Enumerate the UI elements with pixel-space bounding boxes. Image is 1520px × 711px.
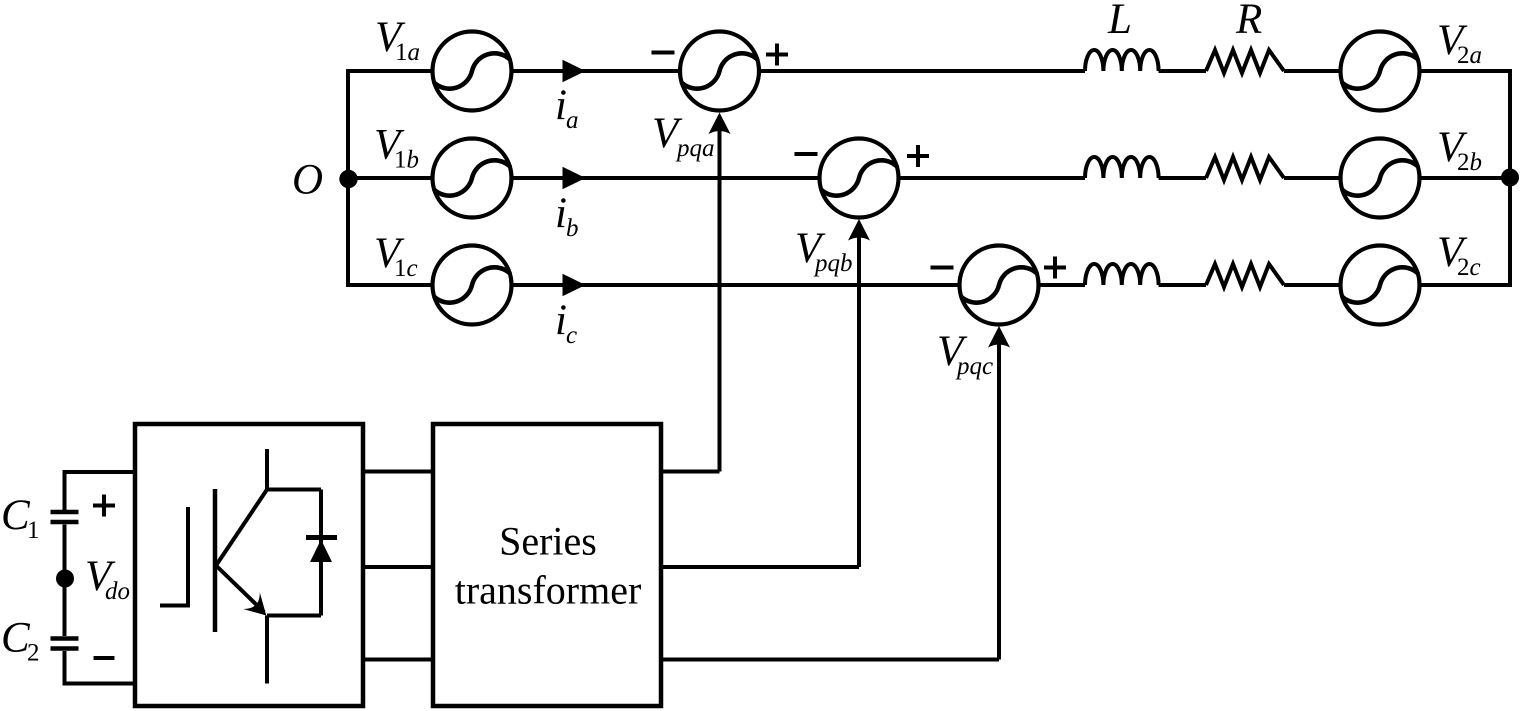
svg-text:1: 1	[27, 517, 40, 544]
svg-text:L: L	[1107, 0, 1132, 43]
wire row b: V1b to Vpqb	[512, 176, 820, 180]
diode D1 cathode bar	[306, 535, 337, 540]
wire row c: L to R	[1159, 283, 1207, 287]
inductor L row c	[1085, 264, 1159, 285]
diode D1 triangle	[310, 540, 332, 563]
wire riser to Vpqb	[857, 231, 861, 567]
svg-text:2: 2	[27, 640, 40, 667]
resistor R row a	[1206, 50, 1284, 73]
source Vpqa	[680, 32, 759, 111]
wire transformer out b	[661, 565, 859, 569]
diode branch bottom link	[267, 614, 321, 618]
minus sign Vpqa minus	[652, 51, 675, 55]
wire row c: Vpqc to L	[1039, 283, 1086, 287]
svg-text:1a: 1a	[395, 39, 420, 66]
svg-text:transformer: transformer	[455, 568, 642, 613]
svg-text:do: do	[105, 578, 130, 605]
wire row a: R to V2a	[1284, 69, 1341, 73]
arrowhead into Vpqa	[709, 113, 731, 135]
capacitor C1	[51, 512, 79, 522]
capacitor C2	[51, 639, 79, 649]
current arrow i_b	[563, 167, 586, 189]
svg-text:b: b	[566, 215, 579, 242]
right bus wire	[1420, 71, 1511, 285]
plus sign Vpqc plus	[1044, 257, 1066, 279]
IGBT emitter lead	[216, 566, 264, 613]
inductor L row a	[1085, 50, 1159, 71]
wire row a: L to R	[1159, 69, 1207, 73]
wire transformer out a	[661, 470, 720, 474]
gate drive step	[160, 507, 188, 606]
wire riser to Vpqc	[997, 338, 1001, 660]
svg-text:O: O	[292, 157, 323, 204]
source Vpqc	[960, 246, 1039, 325]
source V2c	[1341, 246, 1420, 325]
inductor L row b	[1085, 157, 1159, 178]
minus sign C2 minus	[94, 656, 115, 660]
wire row b: R to V2b	[1284, 176, 1341, 180]
wire converter-transformer top	[363, 470, 433, 474]
svg-text:2b: 2b	[1457, 149, 1482, 176]
wire row a: V1a to Vpqa	[512, 69, 681, 73]
svg-text:1c: 1c	[394, 255, 418, 282]
wire converter-transformer bottom	[363, 658, 433, 662]
resistor R row b	[1206, 157, 1284, 180]
source V1a	[433, 32, 512, 111]
node O dot	[339, 170, 357, 188]
series transformer box	[433, 424, 661, 706]
arrowhead into Vpqb	[848, 219, 870, 241]
IGBT collector lead	[216, 449, 267, 566]
plus sign Vpqa plus	[766, 44, 788, 66]
dc rail wire	[65, 472, 136, 684]
wire converter-transformer mid	[363, 565, 433, 569]
plus sign C1 plus	[93, 495, 115, 517]
resistor R row c	[1206, 264, 1284, 287]
svg-text:2c: 2c	[1457, 254, 1481, 281]
svg-text:pqb: pqb	[813, 250, 853, 277]
wire transformer out c	[661, 658, 999, 662]
svg-text:Series: Series	[499, 519, 597, 564]
wire row c: R to V2c	[1284, 283, 1341, 287]
source V2b	[1341, 139, 1420, 218]
svg-text:pqc: pqc	[955, 353, 993, 380]
left bus wire	[348, 71, 433, 285]
wire row b: L to R	[1159, 176, 1207, 180]
wire row b: Vpqb to L	[899, 176, 1086, 180]
minus sign Vpqc minus	[931, 266, 954, 270]
diode branch top link	[267, 488, 321, 492]
source V1c	[433, 246, 512, 325]
arrowhead into Vpqc	[988, 326, 1010, 348]
right node dot	[1501, 169, 1519, 187]
wire row a: Vpqa to L	[759, 69, 1085, 73]
node Vdo dot	[56, 570, 74, 588]
svg-text:a: a	[566, 107, 579, 134]
IGBT emitter arrowhead	[243, 592, 266, 615]
source Vpqb	[820, 139, 899, 218]
current arrow i_c	[563, 274, 586, 296]
plus sign Vpqb plus	[907, 145, 929, 167]
IGBT Q1 bar	[213, 489, 218, 632]
svg-text:2a: 2a	[1457, 42, 1482, 69]
svg-text:c: c	[566, 322, 577, 349]
svg-text:R: R	[1235, 0, 1262, 43]
wire riser to Vpqa	[718, 125, 722, 472]
source V1b	[433, 139, 512, 218]
wire row c: V1c to Vpqc	[512, 283, 960, 287]
converter box U1	[135, 424, 363, 706]
svg-text:pqa: pqa	[675, 135, 715, 162]
diode D1 wire	[319, 490, 323, 616]
current arrow i_a	[563, 60, 586, 82]
IGBT emitter stub	[265, 616, 269, 684]
source V2a	[1341, 32, 1420, 111]
svg-text:1b: 1b	[394, 147, 419, 174]
minus sign Vpqb minus	[795, 152, 818, 156]
